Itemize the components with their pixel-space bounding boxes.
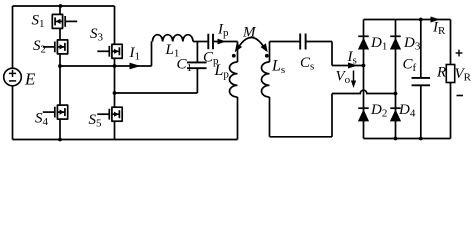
svg-text:E: E bbox=[24, 70, 36, 89]
svg-text:M: M bbox=[242, 25, 257, 41]
svg-text:R: R bbox=[436, 65, 446, 81]
